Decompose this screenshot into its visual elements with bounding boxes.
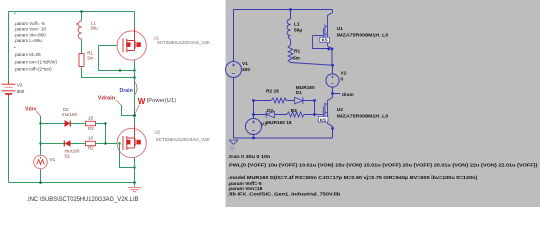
diode D1 [64,140,80,158]
svg-text:R2: R2 [88,146,94,151]
svg-text:U2: U2 [337,107,343,113]
param text block [14,11,57,71]
node U2 gate [118,142,120,144]
svg-text:D2: D2 [267,108,273,114]
svg-text:U2: U2 [155,130,161,135]
spice directive .tran [228,154,538,198]
ground 0 [128,183,142,192]
diode D2 [62,107,77,127]
wire L1 top stub [81,12,83,22]
svg-text:5m: 5m [293,56,300,62]
wire V1 bottom [40,169,42,183]
node on gate loop [119,69,121,71]
node V3 bus mid [252,113,255,116]
wire R3 to gate bus [96,123,106,125]
node drain [331,92,334,95]
wire D2 to R3 [275,114,287,116]
wire to V2 [332,65,334,74]
wire U1 gate loop [99,46,135,71]
right panel background [226,0,540,207]
wire U2 gate [106,143,118,145]
ground [229,140,238,144]
node gate bus bottom [313,113,316,116]
svg-text:.param toff=(2*ton): .param toff=(2*ton) [14,67,52,72]
inductor L1 [287,19,302,39]
svg-text:IMZA75R008M1H_L0: IMZA75R008M1H_L0 [337,33,389,39]
node bottom branch [39,142,41,144]
svg-text:D1: D1 [296,90,302,96]
svg-text:SCT025HU120G3AG_V2K: SCT025HU120G3AG_V2K [156,137,210,142]
svg-text:.param Vin=800: .param Vin=800 [14,33,46,38]
wire V3 bus left [253,101,255,119]
svg-text:U1: U1 [337,26,343,32]
wire D2 to R3 [70,123,85,125]
wire Vdrain stub [122,105,135,116]
svg-text:.INC \SUBS\SCT025HU120G3AG_V2K: .INC \SUBS\SCT025HU120G3AG_V2K.LIB [27,196,139,203]
resistor R2 [266,89,287,104]
diode D1 [295,85,316,104]
net label Drain [120,88,133,94]
svg-text:D1: D1 [65,153,71,158]
svg-text:59µ: 59µ [294,28,302,34]
svg-text:|Power(U1): |Power(U1) [147,98,176,104]
node top branch [39,122,41,124]
wire U1 source down to drain node [134,60,136,116]
node drain junction [133,114,136,117]
node V3 bottom rail [252,137,255,140]
svg-text:.param L=59u: .param L=59u [14,38,42,43]
wire R2 to gate bus [96,143,106,145]
wire U1 source down [331,49,334,65]
wire bottom rail [234,137,333,139]
wire V2 bottom [332,87,334,93]
wire R1 diagonal to source node [291,63,333,66]
node loop / source [133,166,135,168]
resistor R1 [288,45,300,63]
INC directive text [27,196,139,203]
wire left rail upper [8,12,10,82]
source V2 [326,71,347,88]
svg-text:V2: V2 [341,71,347,77]
svg-text:IMZA75R008M1H_L0: IMZA75R008M1H_L0 [337,114,389,120]
wire bottom branch left [41,143,65,145]
svg-text:MUR160: MUR160 [296,85,315,91]
wire U2 drain [134,116,136,132]
wire D1 to R2 [71,143,86,145]
node junction at U1 source rail [133,76,136,79]
wire R3 to gate bus [304,114,315,116]
left panel background [0,0,226,207]
source V1 [34,155,56,169]
battery V2 [2,82,25,98]
svg-text:18: 18 [88,116,93,121]
wire left rail lower [8,98,10,183]
svg-text:R3: R3 [88,126,94,131]
svg-text:*: * [14,45,16,50]
node bottom rail [133,181,136,184]
transistor U1 [313,10,389,51]
svg-text:*: * [14,11,16,16]
wire D1 to gate bus [303,100,315,102]
svg-text:V3: V3 [261,122,267,128]
node gate bus top [104,122,106,124]
wire V3 bottom [253,135,255,139]
wire R1 bottom to U1 source rail [82,67,135,78]
svg-text:.param Von=18: .param Von=18 [228,186,263,192]
resistor R3 [86,116,96,131]
wire gate branch top [254,100,272,102]
svg-text:V2: V2 [17,83,23,88]
wire U1 drain link [134,12,136,28]
wire gate bus vertical [314,101,316,115]
source V1 [226,61,251,78]
svg-text:5m: 5m [87,55,93,60]
net label Vdrv [25,107,41,117]
node V1 bottom rail [39,181,42,184]
node R1 / U1 source [331,64,334,67]
svg-text:Vdrv: Vdrv [25,107,37,113]
transistor U2 [117,125,210,158]
wire Vdrv bus [40,116,42,155]
svg-text:18: 18 [88,135,93,140]
node gate bus bottom [104,142,106,144]
svg-text:L1: L1 [294,22,300,28]
wire bottom rail [9,182,135,184]
wire L1 stub [290,10,292,20]
wire L1 to R1 [81,39,83,54]
svg-text:.model MUR160 D(IS=7.4f RS=50m: .model MUR160 D(IS=7.4f RS=50m CJO=17p M… [228,175,478,181]
svg-text:.tran 0 30u 0 10n: .tran 0 30u 0 10n [228,154,271,160]
svg-text:800: 800 [17,89,25,94]
node V3 bus top [252,99,255,102]
wire U2 source to rail [332,126,334,138]
wire U2 gate-source loop [120,144,135,168]
svg-text:R3: R3 [291,108,297,114]
ghost marker [230,146,235,151]
wire left branch down [233,10,235,62]
wire top rail [234,9,333,11]
probe brace marker [135,83,138,95]
svg-text:SCT025HU120G3AG_V2K: SCT025HU120G3AG_V2K [157,40,210,45]
svg-text:V1: V1 [242,61,248,67]
svg-text:0: 0 [341,77,344,83]
power probe W [134,97,176,115]
wire V1 bottom to rail [233,78,235,139]
inductor L1 [76,21,98,40]
svg-text:.param Id=25: .param Id=25 [14,52,41,57]
svg-text:.param Voff= -5: .param Voff= -5 [14,21,45,26]
node junction top rail / L1 [80,10,83,13]
svg-text:KS: KS [322,38,328,43]
wire gate branch bottom [254,114,267,116]
net label Vdrain [98,95,121,105]
svg-text:400: 400 [242,67,250,73]
node top rail / L1 [289,8,292,11]
diode D2 [266,108,292,126]
wire top rail [9,11,135,13]
transistor U1 [117,27,210,60]
svg-text:PWL(0 {VOFF} 10u {VOFF} 10.01u: PWL(0 {VOFF} 10u {VOFF} 10.01u {VON} 15u… [229,163,538,169]
svg-text:KS: KS [320,117,326,122]
svg-text:R2 18: R2 18 [266,89,279,95]
svg-text:Vdrain: Vdrain [98,95,116,101]
node U2 source [331,127,334,130]
svg-text:.param ton=(L*Id/Vin): .param ton=(L*Id/Vin) [14,60,57,65]
resistor R2 [86,135,96,150]
svg-text:59u: 59u [91,26,99,31]
resistor R3 [287,108,304,117]
wire top branch left [41,123,65,125]
svg-text:.lib IFX_CoolSiC_Gen1_Industri: .lib IFX_CoolSiC_Gen1_Industrial_750V.li… [228,192,340,198]
node gate loop / source pin [133,69,135,71]
svg-text:Drain: Drain [120,88,133,94]
node gate bus top [313,99,316,102]
wire R2 to D1 [287,100,295,102]
svg-text:V1: V1 [50,157,56,162]
transistor U2 [315,94,389,127]
wire L1 to R1 [290,39,292,45]
svg-text:MUR160 18: MUR160 18 [266,120,292,126]
wire gate bus vertical [105,124,107,144]
wire U2 source down [134,158,136,183]
resistor R1 [79,50,94,66]
svg-text:mur160: mur160 [62,112,77,117]
svg-text:R1: R1 [294,49,300,55]
source V3 [246,119,268,135]
net label drain [333,92,354,98]
svg-text:drain: drain [342,92,354,98]
svg-text:.param Von= 18: .param Von= 18 [14,27,46,32]
